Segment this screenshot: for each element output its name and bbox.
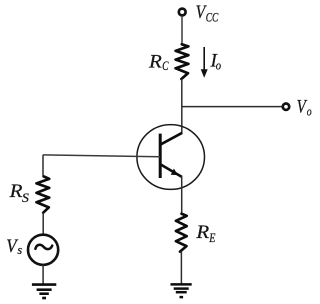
svg-text:o: o [216, 59, 221, 73]
svg-text:C: C [162, 59, 169, 73]
svg-text:o: o [307, 104, 312, 118]
svg-text:s: s [17, 242, 22, 257]
svg-text:E: E [208, 230, 215, 245]
svg-text:R: R [148, 52, 162, 73]
svg-text:CC: CC [206, 11, 219, 25]
svg-text:R: R [195, 222, 209, 243]
svg-text:S: S [22, 190, 30, 205]
svg-text:R: R [9, 181, 23, 202]
